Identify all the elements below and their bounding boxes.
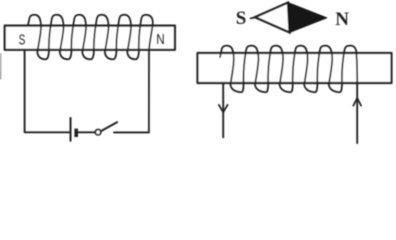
svg-text:S: S bbox=[236, 8, 247, 29]
svg-text:N: N bbox=[156, 31, 164, 48]
svg-text:N: N bbox=[335, 9, 349, 30]
svg-text:S: S bbox=[19, 31, 26, 49]
